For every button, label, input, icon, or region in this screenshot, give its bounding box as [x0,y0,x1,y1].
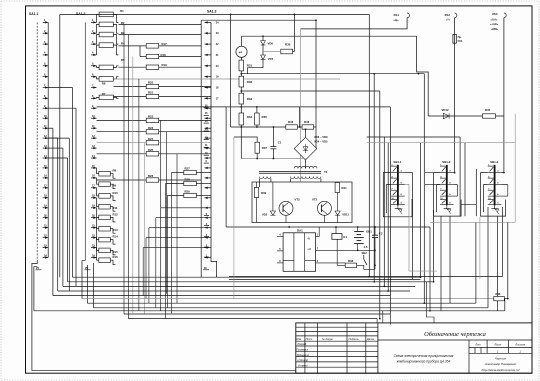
wire top bus B [201,19,316,21]
svg-text:R45: R45 [485,108,491,112]
wire R33-R34 [240,104,242,113]
resistor R39 [254,188,266,198]
switch SA1.2 common bar [84,22,86,260]
svg-text:Пр.: Пр. [458,35,462,39]
diode VD2 [262,211,276,217]
transistor VT2 [279,198,300,216]
resistor R34 [239,113,252,125]
resistor R37 [255,142,267,153]
meter PA1 [236,46,247,57]
svg-text:FU1: FU1 [458,39,463,43]
svg-text:R25: R25 [148,148,154,152]
wire bottoms 158 [241,158,305,160]
svg-text:VT5: VT5 [312,198,318,202]
wire bridge bottom [305,160,307,168]
resistor R3 [99,32,113,37]
resistor R31 [239,60,252,71]
wire XS3 down [503,18,505,173]
wire title corners [377,282,434,325]
wire bus 279 [229,279,421,281]
wire R37 bottom [256,153,258,158]
wire R31-R32 [240,71,242,76]
resistor R36h [281,42,293,54]
svg-text:Утверд: Утверд [298,363,308,367]
switch SA1.3 taps [204,21,219,258]
wire top bus A [60,13,370,15]
wire SA1.1 main drop [32,261,37,371]
svg-text:SA1.1: SA1.1 [29,12,39,16]
wire branch2 [241,90,379,92]
svg-text:R13: R13 [113,228,119,232]
wire R43 right [314,127,316,149]
svg-text:«-mΩ»: «-mΩ» [490,22,499,26]
wire row9 [226,106,241,108]
resistor R14 [99,237,111,242]
resistor R20 [146,84,159,88]
wire VD7 bottom [248,59,263,73]
svg-text:R15: R15 [113,250,119,254]
svg-text:R7: R7 [102,92,106,96]
svg-text:Редактил: Редактил [297,353,310,357]
resistor R27 [184,170,197,174]
capacitor C1 [270,126,281,158]
resistor R1 [99,12,113,17]
wire SA1.1 drop2 [34,267,37,311]
svg-text:25: 25 [85,266,89,270]
wire dashed box right [409,114,515,279]
svg-text:«V,A»: «V,A» [491,18,499,22]
svg-text:R20: R20 [148,81,154,85]
node bus A dots [230,14,296,16]
labels middle resistors [148,42,167,178]
diode VD7 [261,45,274,61]
label R27 [185,167,191,171]
svg-text:R22: R22 [148,115,154,119]
title block author [482,356,521,372]
resistor R42 [286,120,298,129]
svg-text:R4: R4 [121,42,125,46]
svg-text:http://www.elektrosxema.ru/: http://www.elektrosxema.ru/ [482,368,521,372]
wire SA1.2 drop1 [82,261,85,299]
wires bottom buses [34,277,505,318]
resistor R7 [99,95,113,100]
wire bottom long [32,370,296,372]
svg-text:C3: C3 [379,232,383,236]
labels SA1.2 top bank [102,9,125,96]
capacitor C3 [372,227,383,250]
node meter bus dot [262,35,264,37]
svg-text:K1: K1 [343,235,347,239]
switch SB1.2 [440,160,454,214]
svg-text:№ докум: № докум [322,337,333,341]
svg-text:R5: R5 [121,58,125,62]
wires+labels SA1.2 bottom bank [97,168,119,265]
title block name [424,331,486,338]
svg-text:«*»: «*» [446,18,451,22]
wire VD-R35 [263,14,294,51]
svg-text:XS2: XS2 [445,13,451,17]
svg-text:R12: R12 [113,212,119,216]
svg-text:R23: R23 [148,126,154,130]
switch SA1.2 taps [91,19,97,258]
resistor R46 [494,292,505,301]
svg-text:R41: R41 [342,186,348,190]
svg-text:4,5: 4,5 [364,245,368,249]
wire XS1 route [300,18,407,29]
switch SA1.3 terminal 19 [203,266,209,270]
svg-text:Лист: Лист [493,343,502,347]
switch SA1.3 left boundary [200,20,202,277]
svg-text:Подпись: Подпись [349,337,360,341]
resistor R16 [99,258,111,263]
svg-text:VD7: VD7 [268,57,274,61]
svg-text:Лист: Лист [305,337,314,341]
resistor R4 [99,43,113,48]
wires SB1.1 links [383,173,412,272]
svg-text:R31: R31 [247,64,253,68]
svg-text:Листов: Листов [514,343,525,347]
resistor R21 [146,94,159,98]
wires right verticals [369,14,508,318]
svg-text:Дата: Дата [366,337,374,341]
svg-text:XS3: XS3 [492,12,498,16]
svg-text:R8: R8 [113,169,117,173]
svg-text:R33: R33 [247,97,253,101]
svg-text:R39: R39 [261,191,267,195]
title block nums [497,349,521,353]
svg-text:μA: μA [239,51,243,54]
svg-text:R29: R29 [185,190,191,194]
wire SA1.3 bottom drop [211,258,217,278]
wire XS2 down [454,18,456,35]
terminal XS1 [394,13,410,22]
resistor R18 [146,54,159,58]
resistor R17 [146,44,159,48]
node junction2 [240,90,242,92]
svg-text:SB1.1: SB1.1 [393,160,401,164]
wires VT internals [257,182,338,223]
title block lit [474,343,525,347]
svg-text:SB1.3: SB1.3 [490,160,498,164]
diode VD12 [442,108,450,119]
transistor VT5 [312,198,332,216]
fuse FU1 [453,34,463,43]
resistor R29 [184,193,197,197]
wires SB1.2 links [434,116,462,216]
node bus227 dots [288,226,376,228]
label R29 [185,190,191,194]
resistor R15 [99,248,111,253]
svg-text:«Ц»: «Ц» [394,18,399,22]
switch SA1.1 common bar [36,22,38,260]
wire meter-R31 [241,57,243,60]
title block grid [296,323,532,373]
terminal XS2 [445,13,457,22]
svg-text:VD6: VD6 [268,42,274,46]
svg-text:+U: +U [307,247,311,251]
switch SA1.2 terminal 25 [85,266,91,270]
title block left texts [296,337,374,368]
resistor R9 [99,182,111,187]
svg-text:Изм: Изм [296,337,301,341]
node mid dots [357,250,376,252]
wire branch3 [241,106,390,108]
svg-text:VD12: VD12 [442,108,449,112]
svg-text:Александр Назаренко: Александр Назаренко [484,362,517,366]
resistor R10 [99,194,111,199]
svg-text:R27: R27 [185,167,191,171]
wire R46 link [504,298,508,300]
resistor R13 [99,226,111,231]
svg-text:R34: R34 [247,115,253,119]
wires DA1 left pins [277,233,283,263]
wire bus 227 [226,226,430,228]
svg-text:SB1.2: SB1.2 [442,160,450,164]
svg-text:R1: R1 [120,9,124,13]
wire R34R35 bottoms [241,125,257,127]
svg-text:T1: T1 [324,170,328,174]
wire vert230 [230,14,232,127]
switch SA1.3 label [207,10,217,14]
relay K1 [332,234,348,240]
switch SA1.1 label [29,12,39,16]
resistor R43 [302,120,314,129]
svg-text:R32: R32 [247,80,253,84]
resistor R11 [99,204,111,209]
terminal XS3 [490,12,506,31]
resistor R32 [239,76,252,87]
svg-text:R14: R14 [113,235,119,239]
svg-text:R9: R9 [113,184,117,188]
wire R32-R33 [240,87,242,93]
wire SA1.2 drop2 [86,265,88,303]
diode VD11 [335,211,349,217]
wires middle drops [124,24,205,318]
svg-text:R35: R35 [262,115,268,119]
wires middle rows [97,24,341,195]
wires K1 [336,227,337,265]
wire row9b [97,106,227,108]
wire 137 right [367,136,460,138]
svg-text:R24: R24 [148,137,154,141]
bridge VD8-VD9 VD4-VD5 [294,135,328,160]
svg-text:R36: R36 [285,42,291,46]
node bus B dot [315,19,317,21]
wire chain 241 down [240,127,242,159]
svg-text:Н Контр: Н Контр [298,358,309,362]
wire vert 299 up [299,107,301,127]
wire meter top [241,36,243,46]
wires SA1.2 top bank [97,14,119,98]
switch SB1.3 [488,160,502,214]
svg-text:XS1: XS1 [394,13,400,17]
svg-text:R21: R21 [148,91,154,95]
svg-text:R6: R6 [102,81,106,85]
switch SA1.1 taps [43,19,49,258]
wire y36 drop [417,36,429,116]
wires SA1.1 tap drops [48,88,76,296]
wire R42-R43 [297,126,302,128]
wire vert 226 [225,107,227,227]
switch SB1.1 [391,160,405,214]
wire XS2 down2 [454,43,456,116]
wire dashed 142 [367,142,516,144]
wire T1 sec ends [260,179,321,188]
resistor R22 [146,118,159,122]
resistor R2 [99,22,113,27]
svg-text:R26: R26 [148,174,154,178]
wire SA1.2 drop3 [92,263,94,308]
svg-text:Проверил: Проверил [296,348,308,352]
svg-text:R37: R37 [262,146,268,150]
wires GB1 [357,227,359,250]
title block scheme text [394,354,454,363]
node bus dots [368,276,434,320]
svg-text:Лит: Лит [474,343,481,347]
wire branch1 [241,73,424,75]
wire bus 276 [229,276,503,278]
svg-text:VD2: VD2 [262,213,268,217]
node junction1 [240,73,242,75]
svg-text:R10: R10 [113,191,119,195]
resistor R5 [99,65,113,70]
wire SA1.2 left vertical [59,14,61,277]
svg-text:R16: R16 [113,255,119,259]
svg-text:C1: C1 [278,141,282,145]
svg-text:Разраб: Разраб [298,342,307,346]
svg-text:DA1: DA1 [297,229,303,233]
switch SA1.3 common bar [210,22,212,257]
resistor R12 [99,215,111,220]
wire R35 top [256,106,258,113]
resistor R28 [184,181,197,185]
svg-text:R19: R19 [162,63,168,67]
svg-text:R38: R38 [348,259,354,263]
svg-text:R42: R42 [288,120,294,124]
resistor R6 [99,77,113,82]
wire VD12 line [428,115,504,117]
resistor R45 [483,108,496,118]
svg-text:R43: R43 [304,120,310,124]
svg-text:R11: R11 [113,206,118,210]
svg-text:R17: R17 [162,42,168,46]
svg-text:R46: R46 [496,292,501,296]
resistor R26 [146,178,159,182]
label R28 [185,178,191,182]
transformer T1 [259,166,328,178]
diode VD6 [261,36,274,45]
wire mid bus [358,250,375,265]
wire R42 feed [231,126,286,128]
svg-text:VD6 – VD9: VD6 – VD9 [314,135,328,139]
svg-text:SB2: SB2 [362,251,368,255]
svg-text:«MΩ»: «MΩ» [491,27,499,31]
svg-text:VT2: VT2 [294,198,300,202]
svg-text:Чертил: Чертил [495,356,507,360]
wire meter bus [242,35,417,37]
resistor R8 [99,171,111,176]
wires R38 SB2 [337,264,376,269]
wires DA1 right pins [316,227,358,263]
switch SA1.2 label [76,12,86,16]
wire bridge top [305,128,307,137]
resistor R25 [146,152,159,156]
battery GB1 [354,230,372,249]
svg-text:комбинированного прибора Ц4.35: комбинированного прибора Ц4.354 [397,360,451,364]
svg-text:VD11: VD11 [342,213,349,217]
wire vert 316 [315,20,317,127]
resistor R41 [335,183,347,193]
svg-text:VD4 – VD5: VD4 – VD5 [314,140,328,144]
resistor R23 [146,130,159,134]
resistor R33 [239,93,252,104]
switch SA1.1 tap bus [47,22,49,257]
ic DA1 [283,229,316,272]
resistor R38 [345,259,357,268]
box VT area [252,182,352,223]
switch SA1.1 terminal 25 [36,266,42,270]
wire vert 233 [233,137,235,299]
resistor R35v [255,113,268,125]
wires SB interconnect [425,169,476,216]
wire XS1 drop [299,29,301,182]
resistor R24 [146,141,159,145]
svg-text:Схема электрическая принципиал: Схема электрическая принципиальная [394,354,454,358]
wires SB1.3 links [481,172,508,216]
switch SB2 [362,251,368,269]
wire R37 top link [234,137,257,142]
svg-text:Обозначение чертежа: Обозначение чертежа [424,331,486,338]
svg-text:19: 19 [204,266,208,270]
resistor R19 [146,65,159,69]
svg-text:SA1.3: SA1.3 [207,10,217,14]
svg-text:-U: -U [307,237,310,241]
